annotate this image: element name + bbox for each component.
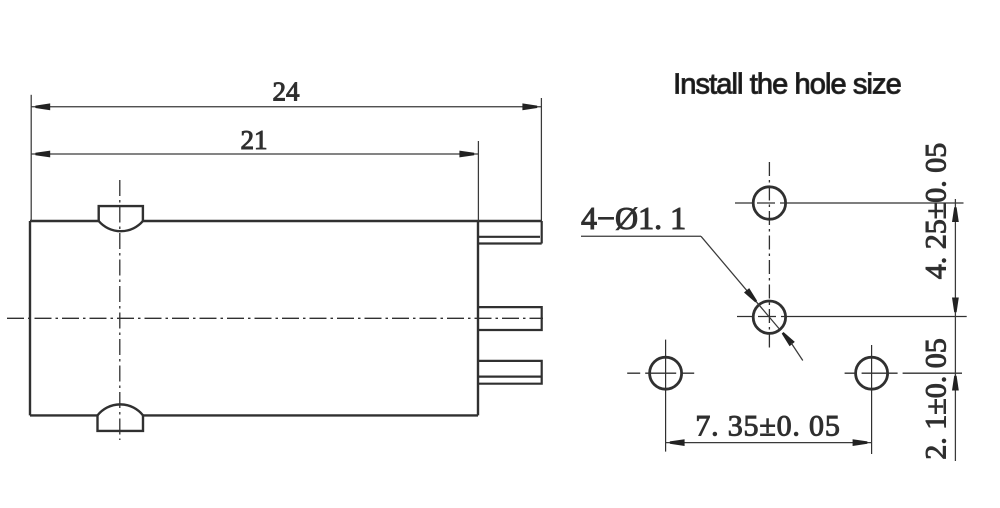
dimension line 21 [31, 141, 478, 221]
centerlines bottom-right hole [845, 372, 962, 374]
top key bump [99, 206, 143, 231]
leader tail lower-right [791, 343, 803, 361]
chord through hole [759, 305, 780, 330]
svg-text:2. 1±0. 05: 2. 1±0. 05 [920, 338, 953, 459]
horizontal centerline top hole (extension to right dim) [735, 202, 964, 204]
svg-text:7. 35±0. 05: 7. 35±0. 05 [695, 410, 840, 443]
leader diagonal to middle hole [701, 236, 759, 304]
svg-text:4−Ø1. 1: 4−Ø1. 1 [581, 200, 686, 236]
body outline (side view shell) [30, 221, 542, 415]
hole top [753, 187, 785, 219]
horizontal centerline of side view [7, 317, 543, 319]
leader arrow at upper-left hole edge [744, 288, 757, 302]
arrowheads vertical dims [952, 207, 959, 390]
svg-text:Install the hole size: Install the hole size [673, 69, 901, 101]
arrowheads dim 7.35 [670, 439, 868, 446]
svg-text:4. 25±0. 05: 4. 25±0. 05 [920, 143, 953, 279]
horizontal centerline middle hole (extension to right dim) [737, 316, 967, 318]
bottom pin [478, 361, 542, 384]
dimension line 7.35 [666, 442, 872, 444]
middle pin [478, 307, 542, 330]
right vertical dimension line [954, 199, 956, 461]
centerlines bottom-left hole [627, 372, 694, 374]
svg-text:21: 21 [241, 125, 268, 155]
leader underline [581, 235, 701, 237]
hole bottom-right [856, 357, 888, 389]
vertical centerline of key bumps [119, 180, 121, 440]
hole middle [753, 301, 785, 333]
arrowheads dim 24 [35, 103, 537, 110]
hole bottom-left [650, 357, 682, 389]
top pin [478, 221, 542, 244]
bottom key bump [98, 404, 144, 431]
dimension line 24 [31, 95, 541, 221]
svg-text:24: 24 [273, 77, 301, 107]
arrow at lower-right hole edge [782, 332, 795, 346]
vertical centerline through top+middle holes [768, 162, 770, 348]
arrowheads dim 21 [35, 151, 474, 158]
